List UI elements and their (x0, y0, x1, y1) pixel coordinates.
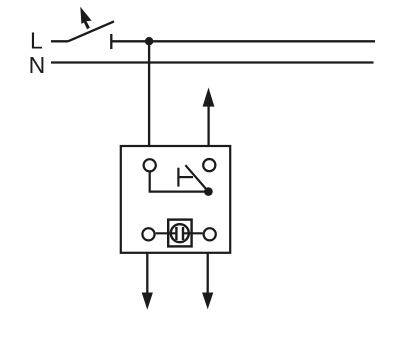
svg-text:N: N (29, 52, 46, 78)
svg-text:L: L (30, 27, 43, 53)
